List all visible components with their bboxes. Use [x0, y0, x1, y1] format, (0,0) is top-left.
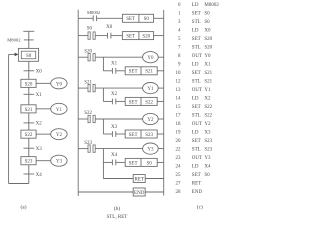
svg-text:SET: SET	[126, 35, 135, 40]
svg-text:M8002: M8002	[7, 38, 21, 43]
svg-text:LD: LD	[192, 29, 199, 34]
svg-text:X0: X0	[204, 29, 211, 34]
svg-text:24: 24	[176, 165, 182, 170]
svg-text:15: 15	[176, 105, 182, 110]
svg-text:Y0: Y0	[56, 82, 63, 87]
svg-text:X4: X4	[111, 153, 118, 158]
svg-text:X1: X1	[204, 63, 211, 68]
svg-text:S22: S22	[25, 133, 33, 138]
svg-text:STL: STL	[192, 46, 201, 51]
svg-text:Y2: Y2	[147, 118, 154, 123]
instruction line: 8 OUT Y0	[178, 54, 211, 59]
END rung wire in	[78, 191, 133, 193]
rung wire: coil Y3 to right rail	[158, 148, 164, 150]
svg-text:27: 27	[176, 182, 182, 187]
rung2 wire: box to right rail	[154, 35, 164, 37]
rung1 wire: rail to M8002 contact	[78, 17, 93, 19]
svg-text:LD: LD	[192, 131, 199, 136]
STL contact S0	[88, 32, 95, 39]
branch wire: X3 to SET box	[116, 133, 125, 135]
svg-text:SET: SET	[192, 139, 201, 144]
svg-text:X4: X4	[204, 165, 211, 170]
svg-text:X1: X1	[36, 93, 43, 98]
svg-text:SET: SET	[192, 37, 201, 42]
output coil Y3	[143, 143, 159, 154]
svg-text:SET: SET	[129, 161, 138, 166]
transition tick X4	[24, 173, 35, 175]
svg-text:S0: S0	[204, 173, 210, 178]
svg-text:S22: S22	[145, 100, 153, 105]
RET rung wire in	[103, 178, 133, 180]
instruction box SET S21 (branch X1)	[125, 67, 157, 75]
instruction line: 17 STL S22	[176, 114, 213, 119]
state S23 box	[21, 157, 36, 165]
rung wire: coil Y0 to right rail	[158, 56, 164, 58]
svg-text:OUT: OUT	[192, 122, 202, 127]
instruction line: 14 LD X2	[176, 97, 212, 102]
svg-text:(a): (a)	[21, 203, 27, 210]
svg-text:X3: X3	[204, 131, 211, 136]
output coil Y1	[143, 83, 159, 94]
svg-text:STL: STL	[192, 114, 201, 119]
svg-text:X0: X0	[36, 70, 43, 75]
svg-text:Y0: Y0	[204, 54, 211, 59]
instruction line: 19 LD X3	[176, 131, 212, 136]
action coil Y2 of state S22	[51, 129, 67, 140]
svg-text:X2: X2	[111, 92, 118, 97]
rung wire: S20 to coil Y0	[95, 56, 142, 58]
instruction box SET S22 (branch X2)	[125, 97, 157, 105]
branch wire: X1 to SET box	[116, 70, 125, 72]
instruction line: 24 LD X4	[176, 165, 212, 170]
instruction line: 9 LD X1	[178, 63, 211, 68]
svg-text:LD: LD	[192, 3, 199, 8]
svg-text:S21: S21	[204, 80, 212, 85]
branch wire to contact X1	[103, 70, 112, 72]
branch wire: box to right rail	[157, 133, 164, 135]
STL contact S22	[88, 115, 95, 122]
output coil Y2	[143, 113, 159, 124]
svg-text:Y2: Y2	[56, 133, 63, 138]
svg-text:OUT: OUT	[192, 156, 202, 161]
svg-text:S0: S0	[144, 17, 150, 22]
action coil Y1 of state S21	[51, 103, 67, 114]
SFC main state-chain vertical wire	[28, 31, 30, 183]
contact X2	[112, 99, 115, 105]
svg-text:Y3: Y3	[56, 160, 63, 165]
branch vertical after S23	[102, 149, 104, 179]
svg-text:Y0: Y0	[147, 56, 154, 61]
branch vertical after S22	[102, 119, 104, 134]
svg-text:SET: SET	[126, 17, 135, 22]
contact X3	[112, 131, 115, 137]
svg-text:S21: S21	[25, 108, 33, 113]
feedback return wire (bottom)	[9, 183, 29, 185]
rung wire: coil Y1 to right rail	[158, 87, 164, 89]
svg-text:S23: S23	[145, 133, 153, 138]
svg-text:X2: X2	[204, 97, 211, 102]
svg-text:S0: S0	[146, 161, 152, 166]
branch wire: X4 to SET box	[116, 161, 125, 163]
svg-text:LD: LD	[192, 63, 199, 68]
feedback arrow into S0	[9, 53, 19, 57]
rung wire: rail to STL contact S22	[78, 118, 88, 120]
instruction line: 25 SET S0	[176, 173, 211, 178]
svg-text:SET: SET	[192, 105, 201, 110]
svg-text:25: 25	[176, 173, 182, 178]
svg-text:X3: X3	[111, 125, 118, 130]
rung wire: S22 to coil Y2	[95, 118, 142, 120]
svg-text:14: 14	[176, 97, 182, 102]
svg-text:X0: X0	[106, 25, 113, 30]
transition tick X0	[24, 70, 35, 72]
svg-text:Y1: Y1	[147, 87, 154, 92]
instruction line: 20 SET S23	[176, 139, 213, 144]
END instruction box	[133, 188, 145, 196]
svg-text:END: END	[134, 191, 145, 196]
instruction line: 13 OUT Y1	[176, 88, 212, 93]
svg-text:STL: STL	[192, 80, 201, 85]
branch wire: X2 to SET box	[116, 100, 125, 102]
instruction line: 1 SET S0	[178, 12, 210, 17]
action coil Y3 of state S23	[51, 155, 67, 166]
svg-text:OUT: OUT	[192, 54, 202, 59]
instruction line: 27 RET	[176, 182, 202, 187]
branch wire: box to right rail	[157, 161, 164, 163]
instruction box SET S23 (branch X3)	[125, 130, 157, 138]
svg-text:10: 10	[176, 71, 182, 76]
svg-text:Y3: Y3	[147, 148, 154, 153]
svg-text:Y2: Y2	[204, 122, 211, 127]
instruction line: 28 END	[176, 190, 203, 195]
svg-text:X4: X4	[36, 173, 43, 178]
contact M8002	[93, 15, 96, 21]
rung wire: rail to STL contact S23	[78, 148, 88, 150]
branch wire: box to right rail	[157, 70, 164, 72]
svg-text:(c): (c)	[197, 203, 203, 210]
svg-text:STL: STL	[192, 20, 201, 25]
svg-text:SET: SET	[129, 100, 138, 105]
rung wire: coil Y2 to right rail	[158, 118, 164, 120]
svg-text:END: END	[192, 190, 203, 195]
svg-text:OUT: OUT	[192, 88, 202, 93]
STL contact S20	[88, 54, 95, 61]
svg-text:S22: S22	[204, 105, 212, 110]
wire S22 to coil Y2	[36, 133, 51, 135]
instruction line: 0 LD M8002	[178, 3, 219, 8]
transition tick X1	[24, 93, 35, 95]
svg-text:12: 12	[176, 80, 182, 85]
wire S20 to coil Y0	[36, 82, 51, 84]
rung1 wire: box to right rail	[154, 17, 164, 19]
svg-text:S23: S23	[204, 148, 212, 153]
instruction line: 15 SET S22	[176, 105, 213, 110]
svg-text:LD: LD	[192, 97, 199, 102]
svg-text:19: 19	[176, 131, 182, 136]
output coil Y0	[143, 52, 159, 63]
svg-text:S0: S0	[204, 12, 210, 17]
instruction line: 12 STL S21	[176, 80, 213, 85]
svg-text:X3: X3	[36, 147, 43, 152]
branch wire: box to right rail	[157, 100, 164, 102]
state S21 box	[21, 105, 36, 113]
feedback return wire (left)	[8, 54, 10, 183]
instruction box SET S0 (rung1)	[122, 14, 153, 22]
svg-text:SET: SET	[192, 71, 201, 76]
svg-text:STL: STL	[192, 148, 201, 153]
svg-text:Y1: Y1	[56, 108, 63, 113]
contact X0	[108, 33, 111, 39]
svg-text:M8002: M8002	[87, 10, 101, 15]
svg-text:S20: S20	[25, 82, 33, 87]
branch wire to contact X3	[103, 133, 112, 135]
svg-text:Y3: Y3	[204, 156, 211, 161]
instruction line: 23 OUT Y3	[176, 156, 212, 161]
END rung wire to right rail	[145, 191, 164, 193]
transition tick M8002	[24, 39, 34, 41]
initial state S0 (double box)	[18, 48, 38, 61]
rung wire: S21 to coil Y1	[95, 87, 142, 89]
svg-text:S0: S0	[26, 54, 32, 59]
branch wire to contact X4	[103, 161, 112, 163]
right power rail	[163, 10, 165, 196]
action coil Y0 of state S20	[51, 78, 67, 89]
svg-text:17: 17	[176, 114, 182, 119]
svg-text:SET: SET	[192, 12, 201, 17]
svg-text:RET: RET	[134, 177, 143, 182]
svg-text:S21: S21	[204, 71, 212, 76]
instruction box SET S0 (branch X4)	[125, 158, 157, 166]
svg-text:STL, RET: STL, RET	[106, 215, 127, 220]
instruction line: 4 LD X0	[178, 29, 211, 34]
wire S23 to coil Y3	[36, 160, 51, 162]
SFC initial entry top bar	[23, 30, 34, 32]
svg-text:LD: LD	[192, 165, 199, 170]
svg-text:Y1: Y1	[204, 88, 211, 93]
svg-text:S21: S21	[145, 70, 153, 75]
svg-text:S23: S23	[204, 139, 212, 144]
svg-text:SET: SET	[129, 70, 138, 75]
state S20 box	[21, 79, 36, 87]
svg-text:S0: S0	[87, 26, 93, 31]
contact X4	[112, 160, 115, 166]
STL contact S23	[88, 145, 95, 152]
instruction line: 22 STL S23	[176, 148, 213, 153]
svg-text:S20: S20	[204, 46, 212, 51]
svg-text:28: 28	[176, 190, 182, 195]
svg-text:SET: SET	[192, 173, 201, 178]
svg-text:22: 22	[176, 148, 182, 153]
RET instruction box	[133, 175, 145, 183]
branch vertical after S20	[102, 57, 104, 71]
rung2 wire: X0 to SET box	[111, 35, 123, 37]
rung wire: rail to STL contact S21	[78, 87, 88, 89]
instruction box SET S20 (rung2)	[122, 32, 153, 40]
svg-text:20: 20	[176, 139, 182, 144]
STL contact S21	[88, 84, 95, 91]
instruction line: 10 SET S21	[176, 71, 213, 76]
transition tick X3	[24, 147, 35, 149]
rung wire: S23 to coil Y3	[95, 148, 142, 150]
instruction line: 3 STL S0	[178, 20, 210, 25]
transition tick X2	[24, 122, 35, 124]
svg-text:S20: S20	[142, 35, 150, 40]
wire S21 to coil Y1	[36, 108, 51, 110]
RET rung wire to right rail	[145, 178, 164, 180]
left power rail	[77, 10, 79, 196]
rung2 wire: S0 to X0 contact	[95, 35, 107, 37]
svg-text:(b): (b)	[114, 205, 120, 212]
instruction line: 5 SET S20	[178, 37, 213, 42]
rung2 wire: rail to STL contact S0	[78, 35, 88, 37]
svg-text:S20: S20	[204, 37, 212, 42]
svg-text:RET: RET	[192, 182, 201, 187]
svg-text:S0: S0	[204, 20, 210, 25]
instruction line: 7 STL S20	[178, 46, 213, 51]
rung1 wire: contact to SET box	[97, 17, 123, 19]
svg-text:18: 18	[176, 122, 182, 127]
branch vertical after S21	[102, 88, 104, 101]
svg-text:S23: S23	[25, 160, 33, 165]
svg-text:SET: SET	[129, 133, 138, 138]
contact X1	[112, 68, 115, 74]
svg-text:X1: X1	[111, 62, 118, 67]
svg-text:23: 23	[176, 156, 182, 161]
rung wire: rail to STL contact S20	[78, 56, 88, 58]
svg-text:13: 13	[176, 88, 182, 93]
instruction line: 18 OUT Y2	[176, 122, 212, 127]
svg-text:M8002: M8002	[204, 3, 219, 8]
svg-text:S22: S22	[204, 114, 212, 119]
state S22 box	[21, 130, 36, 138]
svg-text:X2: X2	[36, 122, 43, 127]
branch wire to contact X2	[103, 100, 112, 102]
